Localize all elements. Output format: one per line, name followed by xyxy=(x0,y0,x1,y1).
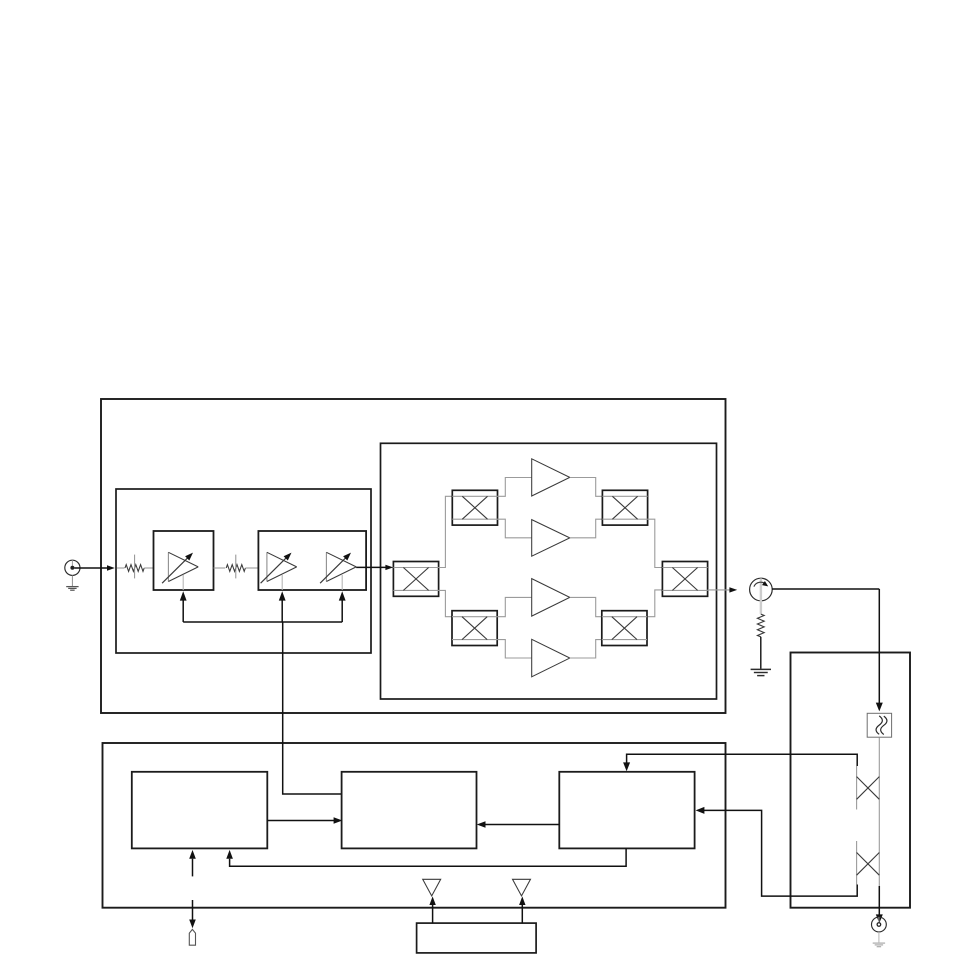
wire coupler X2 to detector B3 xyxy=(696,807,858,896)
wire xyxy=(144,567,153,569)
wire H2 to A4 xyxy=(498,478,532,497)
wire gain section to balanced amp xyxy=(356,565,393,570)
resistor R1 xyxy=(125,555,144,579)
amplifier A7 xyxy=(532,639,570,677)
hybrid coupler H3 (lower split) xyxy=(452,611,497,646)
wire B3 to B1 feedback xyxy=(226,848,626,866)
wire xyxy=(117,567,125,569)
test point TP2 xyxy=(513,879,531,896)
coupled stub 2 xyxy=(856,841,858,885)
control section box xyxy=(103,743,726,908)
wire H1 to H2 xyxy=(439,496,453,567)
bias arrow A2 xyxy=(279,591,286,622)
coupler X2 xyxy=(857,853,880,876)
wire A7 to H5 xyxy=(570,640,602,658)
control block B3 (detector) xyxy=(559,772,694,849)
circulator U2 xyxy=(750,578,773,614)
control block B2 xyxy=(342,772,477,849)
coupled stub 1 xyxy=(856,766,858,810)
wire balanced amp output xyxy=(708,587,738,592)
bias feedback rail xyxy=(183,621,342,623)
hybrid coupler H1 (input) xyxy=(393,562,438,597)
VGA A1 xyxy=(162,552,198,583)
bias stub A1 xyxy=(182,575,184,590)
wire H2 to A5 xyxy=(498,519,532,538)
input port P1 xyxy=(65,560,80,575)
VGA stage 2 box xyxy=(258,531,366,590)
output port P2 xyxy=(872,917,887,932)
wire interface to TP1 xyxy=(429,896,435,923)
digital interface box xyxy=(417,923,536,953)
control block B1 xyxy=(132,772,267,849)
amplifier A4 xyxy=(532,459,570,496)
wire H3 to A6 xyxy=(497,597,532,616)
bias stub A3 xyxy=(341,575,343,590)
bias stub A2 xyxy=(281,575,283,590)
hybrid coupler H2 (upper split) xyxy=(452,490,497,525)
wire circulator to coupler section xyxy=(772,589,883,711)
bandpass filter FL1 xyxy=(867,713,891,737)
bias rail to control section xyxy=(283,622,342,794)
ground xyxy=(66,575,78,590)
VGA A2 xyxy=(261,552,297,583)
VGA A3 xyxy=(320,552,356,583)
RF amplifier assembly outer box xyxy=(101,399,726,713)
wire coupler X1 to detector B3 xyxy=(623,754,857,771)
amplifier A6 xyxy=(532,579,570,617)
wire H1 to H3 xyxy=(439,590,452,616)
resistor R2 xyxy=(226,555,245,579)
hybrid coupler H6 (output) xyxy=(662,562,707,597)
wire xyxy=(245,567,258,569)
balanced amplifier section box xyxy=(381,443,717,699)
wire interface to TP2 xyxy=(519,896,525,923)
gain control section box xyxy=(116,489,371,653)
supply arrow into B1 xyxy=(189,850,196,877)
wire filter to output port xyxy=(876,737,883,923)
coupler/detector section box xyxy=(791,653,911,908)
wire xyxy=(760,637,762,669)
amplifier A5 xyxy=(532,520,570,557)
wire B3 to B2 xyxy=(477,821,560,828)
test point TP1 xyxy=(423,879,441,896)
wire H5 to H6 xyxy=(648,590,663,617)
resistor R3 (termination) xyxy=(757,614,764,637)
bias arrow A3 xyxy=(339,591,346,622)
wire A4 to H4 xyxy=(570,478,603,497)
supply wire to pin xyxy=(189,900,196,928)
wire A6 to H5 xyxy=(570,597,602,616)
wire xyxy=(214,567,226,569)
wire input to gain section xyxy=(74,565,115,570)
supply pin xyxy=(189,929,195,945)
wire H4 to H6 xyxy=(648,519,663,567)
VGA stage 1 box xyxy=(154,531,214,590)
bias arrow A1 xyxy=(180,591,187,622)
wire B1 to B2 xyxy=(267,817,342,824)
hybrid coupler H5 (lower combine) xyxy=(602,611,647,646)
hybrid coupler H4 (upper combine) xyxy=(602,490,647,525)
wire H3 to A7 xyxy=(497,640,532,658)
ground xyxy=(751,669,771,675)
ground xyxy=(873,932,885,947)
coupler X1 xyxy=(857,777,880,800)
wire A5 to H4 xyxy=(570,519,603,538)
